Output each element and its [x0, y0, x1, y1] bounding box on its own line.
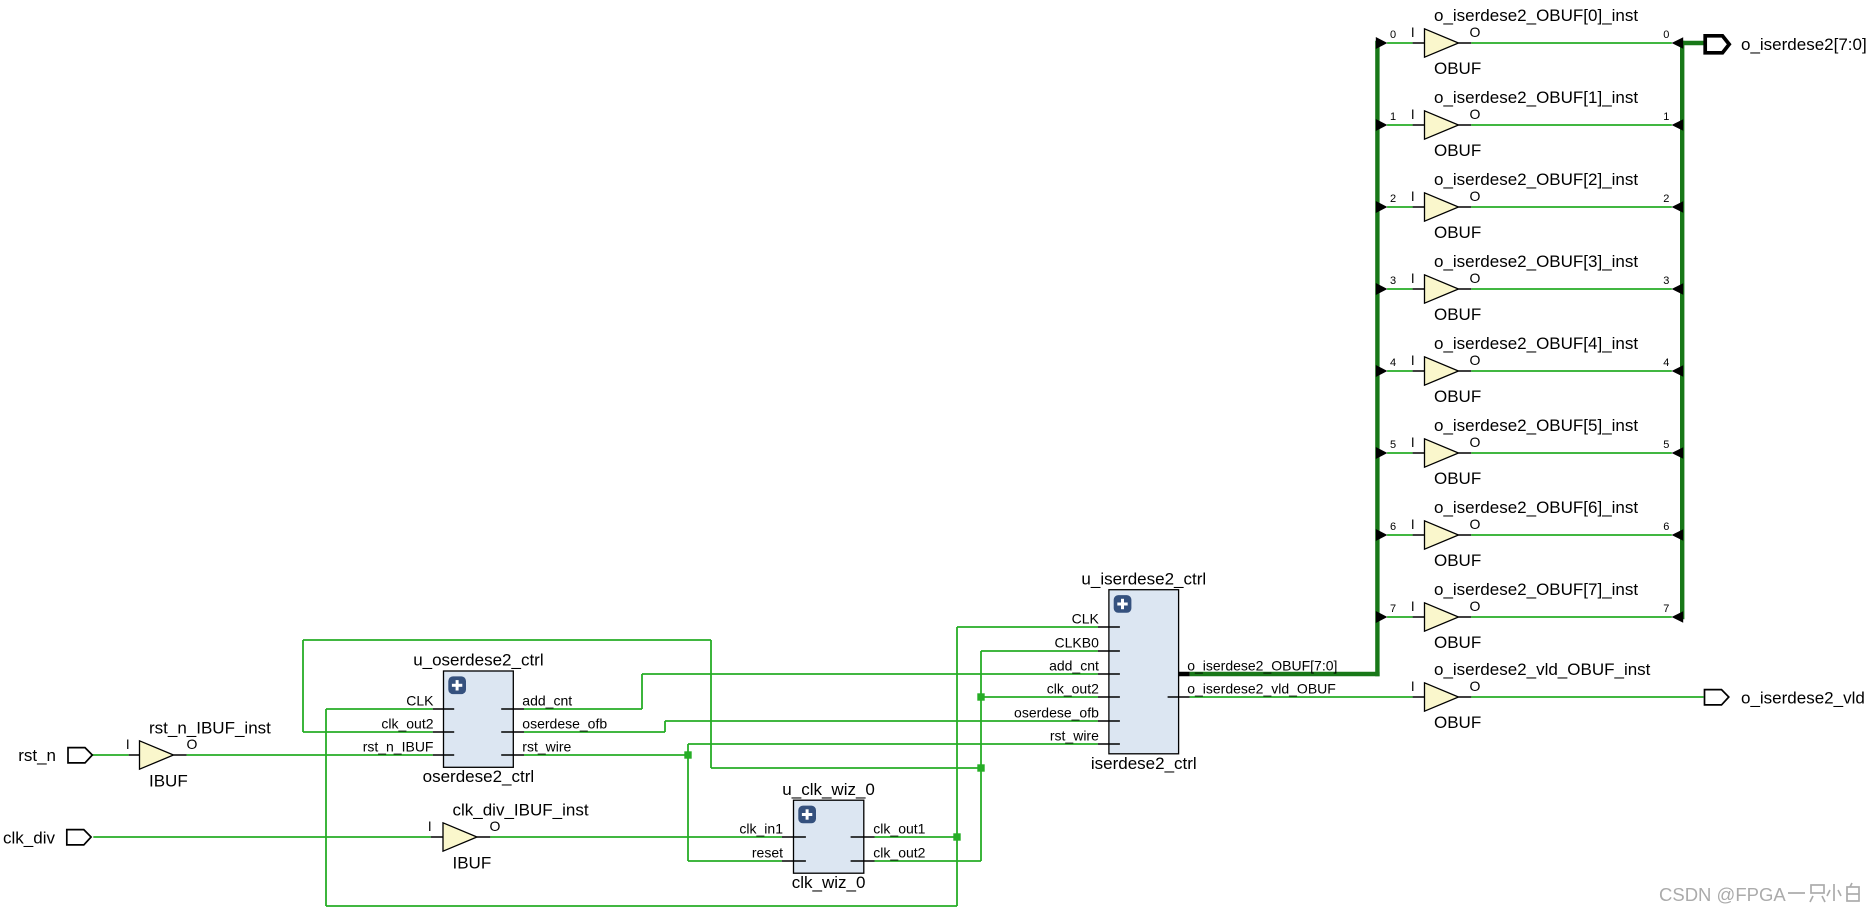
pin stubs of clk_div buffer: [431, 836, 491, 838]
type label IBUF of rst_n buffer: [149, 772, 188, 791]
wire bus tap 1 into OBUF[1] (left): [1387, 124, 1424, 126]
wire net o_iserdese2_vld_OBUF (iserdese2 to OBUF): [1190, 696, 1413, 698]
wire OBUF[0] output to right bus: [1459, 42, 1672, 44]
junction on rst_wire net: [684, 751, 691, 758]
svg-text:IBUF: IBUF: [149, 772, 188, 791]
junction on clk_out2 net at iserdese2 clk_out2 branch: [977, 693, 984, 700]
svg-text:add_cnt: add_cnt: [522, 692, 572, 708]
buffer o_iserdese2_OBUF[5]_inst: [1425, 439, 1459, 467]
arrowhead bus entry index 2: [1672, 201, 1684, 213]
wire net rst_n (input port to IBUF): [93, 754, 129, 756]
pin label O of rst_n buffer: [187, 736, 198, 752]
bus index label 4 (left): [1390, 357, 1396, 369]
svg-text:7: 7: [1663, 603, 1669, 615]
wire OBUF[4] output to right bus: [1459, 370, 1672, 372]
svg-text:reset: reset: [752, 844, 783, 860]
svg-text:6: 6: [1390, 521, 1396, 533]
wire OBUF[7] output to right bus: [1459, 616, 1672, 618]
bus index label 3 (right): [1663, 275, 1669, 287]
svg-text:I: I: [1411, 599, 1415, 614]
arrowhead bus exit index 1: [1376, 119, 1388, 131]
arrowhead bus exit index 5: [1376, 447, 1388, 459]
svg-text:I: I: [1411, 435, 1415, 450]
pin o_iserdese2_OBUF[7:0] label of u_iserdese2_ctrl (right, bus): [1187, 657, 1337, 673]
svg-text:O: O: [1470, 270, 1481, 286]
pin add_cnt of u_iserdese2_ctrl (left): [1049, 657, 1120, 674]
pin label I of o_iserdese2_vld_OBUF_inst: [1411, 679, 1415, 694]
svg-text:o_iserdese2_OBUF[6]_inst: o_iserdese2_OBUF[6]_inst: [1434, 498, 1638, 517]
instance name u_oserdese2_ctrl: [413, 651, 543, 670]
wire OBUF[6] output to right bus: [1459, 534, 1672, 536]
instance name o_iserdese2_OBUF[1]_inst: [1434, 88, 1638, 107]
pin label I of OBUF[7]: [1411, 599, 1415, 614]
wire OBUF[5] output to right bus: [1459, 452, 1672, 454]
svg-text:O: O: [1470, 352, 1481, 368]
wire bus tap 3 into OBUF[3] (left): [1387, 288, 1424, 290]
svg-text:OBUF: OBUF: [1434, 551, 1481, 570]
arrowhead bus entry index 5: [1672, 447, 1684, 459]
svg-text:o_iserdese2_OBUF[3]_inst: o_iserdese2_OBUF[3]_inst: [1434, 252, 1638, 271]
wire OBUF[1] output to right bus: [1459, 124, 1672, 126]
svg-text:2: 2: [1663, 193, 1669, 205]
svg-text:OBUF: OBUF: [1434, 141, 1481, 160]
svg-text:5: 5: [1390, 439, 1396, 451]
svg-text:u_clk_wiz_0: u_clk_wiz_0: [782, 780, 875, 799]
svg-text:iserdese2_ctrl: iserdese2_ctrl: [1091, 754, 1197, 773]
wire net rst_wire (oserdese2 rst_wire to iserdese2 rst_wire and clk_wiz reset): [524, 744, 1098, 861]
arrowhead bus entry index 7: [1672, 611, 1684, 623]
arrowhead bus exit index 4: [1376, 365, 1388, 377]
svg-text:1: 1: [1663, 111, 1669, 123]
wire net clk_div (input port to IBUF): [93, 836, 431, 838]
pin reset of u_clk_wiz_0 (left): [752, 844, 806, 861]
svg-text:clk_out1: clk_out1: [873, 820, 925, 836]
bus index label 7 (left): [1390, 603, 1396, 615]
svg-text:o_iserdese2[7:0]: o_iserdese2[7:0]: [1741, 35, 1867, 54]
wire net add_cnt (oserdese2 add_cnt to iserdese2 add_cnt): [524, 674, 1098, 709]
pin label O of vld buffer: [1470, 678, 1481, 694]
svg-text:7: 7: [1390, 603, 1396, 615]
pin clk_out1 of u_clk_wiz_0 (right): [851, 820, 926, 837]
pin label I of OBUF[4]: [1411, 353, 1415, 368]
bus index label 5 (right): [1663, 439, 1669, 451]
svg-text:I: I: [1411, 271, 1415, 286]
svg-text:clk_wiz_0: clk_wiz_0: [792, 873, 866, 892]
svg-text:I: I: [1411, 679, 1415, 694]
svg-text:clk_out2: clk_out2: [381, 715, 433, 731]
pin CLKB0 of u_iserdese2_ctrl (left): [1055, 634, 1120, 651]
pin label O of OBUF[6]: [1470, 516, 1481, 532]
wire bus tap 6 into OBUF[6] (left): [1387, 534, 1424, 536]
svg-text:2: 2: [1390, 193, 1396, 205]
arrowhead bus entry index 0: [1672, 37, 1684, 49]
wire OBUF[3] output to right bus: [1459, 288, 1672, 290]
wire net clk_out2 (clk_wiz_0 clk_out2 to oserdese2 clk_out2, iserdese2 CLKB0 and clk_out2): [303, 640, 1098, 861]
junction on clk_out2 net at left branch: [977, 764, 984, 771]
svg-text:CLKB0: CLKB0: [1055, 634, 1100, 650]
svg-text:o_iserdese2_vld_OBUF: o_iserdese2_vld_OBUF: [1187, 681, 1336, 697]
module u_oserdese2_ctrl (block): [444, 671, 514, 767]
arrowhead bus entry index 1: [1672, 119, 1684, 131]
svg-text:O: O: [1470, 106, 1481, 122]
module u_iserdese2_ctrl (block): [1109, 590, 1179, 754]
wire net oserdese_ofb (oserdese2 oserdese_ofb to iserdese2 oserdese_ofb): [524, 721, 1098, 732]
pin label I of OBUF[0]: [1411, 25, 1415, 40]
svg-text:o_iserdese2_OBUF[2]_inst: o_iserdese2_OBUF[2]_inst: [1434, 170, 1638, 189]
svg-text:clk_in1: clk_in1: [739, 820, 783, 836]
type label OBUF of instance 4: [1434, 387, 1481, 406]
bus index label 4 (right): [1663, 357, 1669, 369]
instance name o_iserdese2_OBUF[5]_inst: [1434, 416, 1638, 435]
instance name o_iserdese2_OBUF[2]_inst: [1434, 170, 1638, 189]
svg-text:CLK: CLK: [1072, 610, 1100, 626]
svg-text:clk_out2: clk_out2: [1047, 680, 1099, 696]
arrowhead bus entry index 4: [1672, 365, 1684, 377]
svg-text:oserdese2_ctrl: oserdese2_ctrl: [423, 767, 535, 786]
expand icon of u_iserdese2_ctrl: [1114, 595, 1132, 613]
input port clk_div: [3, 828, 91, 847]
arrowhead bus exit index 2: [1376, 201, 1388, 213]
instance name o_iserdese2_OBUF[6]_inst: [1434, 498, 1638, 517]
svg-text:O: O: [1470, 434, 1481, 450]
svg-text:4: 4: [1663, 357, 1669, 369]
bus index label 3 (left): [1390, 275, 1396, 287]
buffer o_iserdese2_OBUF[6]_inst: [1425, 521, 1459, 549]
svg-text:O: O: [490, 818, 501, 834]
type label OBUF of vld buffer: [1434, 713, 1481, 732]
arrowhead bus entry index 3: [1672, 283, 1684, 295]
type label OBUF of instance 7: [1434, 633, 1481, 652]
svg-text:4: 4: [1390, 357, 1396, 369]
bus net o_iserdese2_OBUF[7:0] (iserdese2 bus output, left vertical bus): [1190, 41, 1380, 676]
bus index label 5 (left): [1390, 439, 1396, 451]
buffer o_iserdese2_OBUF[2]_inst: [1425, 193, 1459, 221]
watermark Chinese characters yi zhi xiao bai (drawn strokes): [1788, 883, 1859, 902]
type label oserdese2_ctrl: [423, 767, 535, 786]
pin label I of OBUF[1]: [1411, 107, 1415, 122]
svg-text:rst_wire: rst_wire: [522, 738, 571, 754]
svg-text:0: 0: [1390, 29, 1396, 41]
svg-text:rst_wire: rst_wire: [1050, 727, 1099, 743]
svg-text:OBUF: OBUF: [1434, 59, 1481, 78]
svg-text:OBUF: OBUF: [1434, 305, 1481, 324]
type label OBUF of instance 3: [1434, 305, 1481, 324]
bus index label 0 (left): [1390, 29, 1396, 41]
wire net clk_div_IBUF (IBUF output to clk_wiz clk_in1): [490, 836, 782, 838]
pin stubs of vld buffer: [1413, 696, 1472, 698]
pin label O of OBUF[5]: [1470, 434, 1481, 450]
svg-text:u_iserdese2_ctrl: u_iserdese2_ctrl: [1081, 569, 1206, 588]
pin rst_wire of u_iserdese2_ctrl (left): [1050, 727, 1120, 744]
pin label O of clk_div buffer: [490, 818, 501, 834]
junction on clk_out1 net: [953, 833, 960, 840]
pin add_cnt of u_oserdese2_ctrl (right): [501, 692, 572, 709]
svg-text:clk_div: clk_div: [3, 828, 55, 847]
buffer o_iserdese2_OBUF[3]_inst: [1425, 275, 1459, 303]
wire bus tap 7 into OBUF[7] (left): [1387, 616, 1424, 618]
svg-text:1: 1: [1390, 111, 1396, 123]
svg-text:I: I: [126, 737, 130, 752]
svg-text:6: 6: [1663, 521, 1669, 533]
type label OBUF of instance 2: [1434, 223, 1481, 242]
svg-text:O: O: [1470, 24, 1481, 40]
bus index label 7 (right): [1663, 603, 1669, 615]
pin label I of OBUF[5]: [1411, 435, 1415, 450]
svg-text:O: O: [187, 736, 198, 752]
buffer clk_div_IBUF_inst: [443, 823, 477, 851]
svg-text:O: O: [1470, 516, 1481, 532]
pin label I of rst_n_IBUF_inst: [126, 737, 130, 752]
watermark CSDN @FPGA (gray): [1659, 884, 1786, 905]
svg-text:O: O: [1470, 598, 1481, 614]
type label IBUF of clk_div buffer: [453, 854, 492, 873]
svg-text:OBUF: OBUF: [1434, 469, 1481, 488]
type label OBUF of instance 1: [1434, 141, 1481, 160]
svg-text:I: I: [1411, 107, 1415, 122]
arrowhead bus entry index 6: [1672, 529, 1684, 541]
arrowhead bus exit index 3: [1376, 283, 1388, 295]
svg-text:oserdese_ofb: oserdese_ofb: [522, 715, 607, 731]
svg-text:OBUF: OBUF: [1434, 387, 1481, 406]
svg-text:o_iserdese2_OBUF[0]_inst: o_iserdese2_OBUF[0]_inst: [1434, 6, 1638, 25]
pin clk_out2 of u_iserdese2_ctrl (left): [1047, 680, 1120, 697]
instance name clk_div_IBUF_inst: [453, 800, 589, 819]
instance name o_iserdese2_OBUF[7]_inst: [1434, 580, 1638, 599]
pin o_iserdese2_vld_OBUF of u_iserdese2_ctrl (right): [1168, 681, 1336, 697]
instance name u_clk_wiz_0: [782, 780, 875, 799]
svg-text:rst_n: rst_n: [18, 746, 56, 765]
svg-text:o_iserdese2_OBUF[5]_inst: o_iserdese2_OBUF[5]_inst: [1434, 416, 1638, 435]
svg-text:5: 5: [1663, 439, 1669, 451]
svg-text:o_iserdese2_OBUF[4]_inst: o_iserdese2_OBUF[4]_inst: [1434, 334, 1638, 353]
buffer rst_n_IBUF_inst: [140, 741, 174, 769]
wire net clk_out1 / CLK (clk_wiz_0 clk_out1 to oserdese2 CLK and iserdese2 CLK): [326, 627, 1098, 906]
pin stubs of rst_n buffer: [129, 754, 187, 756]
svg-text:o_iserdese2_vld_OBUF_inst: o_iserdese2_vld_OBUF_inst: [1434, 660, 1651, 679]
pin label I of OBUF[2]: [1411, 189, 1415, 204]
arrowhead bus exit index 0: [1376, 37, 1388, 49]
arrowhead bus exit index 6: [1376, 529, 1388, 541]
pin label O of OBUF[4]: [1470, 352, 1481, 368]
svg-text:3: 3: [1663, 275, 1669, 287]
buffer o_iserdese2_OBUF[0]_inst: [1425, 29, 1459, 57]
bus index label 2 (right): [1663, 193, 1669, 205]
expand icon of u_oserdese2_ctrl: [448, 676, 466, 694]
module u_clk_wiz_0 (block): [794, 800, 864, 873]
svg-text:o_iserdese2_OBUF[7]_inst: o_iserdese2_OBUF[7]_inst: [1434, 580, 1638, 599]
svg-text:0: 0: [1663, 29, 1669, 41]
bus index label 6 (left): [1390, 521, 1396, 533]
pin label O of OBUF[0]: [1470, 24, 1481, 40]
pin label O of OBUF[3]: [1470, 270, 1481, 286]
wire OBUF[2] output to right bus: [1459, 206, 1672, 208]
type label clk_wiz_0: [792, 873, 866, 892]
pin label O of OBUF[1]: [1470, 106, 1481, 122]
bus index label 1 (right): [1663, 111, 1669, 123]
bus pin stub on iserdese2 (black): [1167, 672, 1189, 676]
pin label O of OBUF[7]: [1470, 598, 1481, 614]
expand icon of u_clk_wiz_0: [798, 806, 816, 824]
wire net o_iserdese2_vld (OBUF output to output port): [1471, 696, 1703, 698]
wire bus tap 4 into OBUF[4] (left): [1387, 370, 1424, 372]
svg-text:3: 3: [1390, 275, 1396, 287]
type label OBUF of instance 0: [1434, 59, 1481, 78]
svg-text:I: I: [1411, 353, 1415, 368]
svg-text:add_cnt: add_cnt: [1049, 657, 1099, 673]
svg-text:clk_out2: clk_out2: [873, 844, 925, 860]
svg-text:rst_n_IBUF: rst_n_IBUF: [363, 738, 434, 754]
svg-text:u_oserdese2_ctrl: u_oserdese2_ctrl: [413, 651, 543, 670]
buffer o_iserdese2_OBUF[1]_inst: [1425, 111, 1459, 139]
pin oserdese_ofb of u_oserdese2_ctrl (right): [501, 715, 607, 732]
svg-text:OBUF: OBUF: [1434, 713, 1481, 732]
svg-text:o_iserdese2_OBUF[7:0]: o_iserdese2_OBUF[7:0]: [1187, 657, 1337, 673]
pin clk_out2 of u_oserdese2_ctrl (left): [381, 715, 454, 732]
svg-text:oserdese_ofb: oserdese_ofb: [1014, 704, 1099, 720]
buffer o_iserdese2_OBUF[7]_inst: [1425, 603, 1459, 631]
instance name o_iserdese2_OBUF[4]_inst: [1434, 334, 1638, 353]
svg-text:OBUF: OBUF: [1434, 223, 1481, 242]
instance name o_iserdese2_OBUF[3]_inst: [1434, 252, 1638, 271]
pin rst_wire of u_oserdese2_ctrl (right): [501, 738, 571, 755]
buffer o_iserdese2_OBUF[4]_inst: [1425, 357, 1459, 385]
pin CLK of u_oserdese2_ctrl (left): [406, 692, 454, 709]
bus index label 6 (right): [1663, 521, 1669, 533]
pin label I of clk_div_IBUF_inst: [428, 819, 432, 834]
wire net rst_n_IBUF (IBUF output to oserdese2_ctrl): [187, 754, 433, 756]
bus index label 0 (right): [1663, 29, 1669, 41]
svg-text:CSDN @FPGA: CSDN @FPGA: [1659, 884, 1786, 905]
instance name o_iserdese2_vld_OBUF_inst: [1434, 660, 1651, 679]
svg-text:IBUF: IBUF: [453, 854, 492, 873]
bus net o_iserdese2[7:0] (right vertical bus to output port): [1680, 41, 1704, 619]
pin clk_out2 of u_clk_wiz_0 (right): [851, 844, 926, 861]
buffer o_iserdese2_vld_OBUF_inst: [1425, 683, 1459, 711]
svg-text:O: O: [1470, 678, 1481, 694]
instance name o_iserdese2_OBUF[0]_inst: [1434, 6, 1638, 25]
pin clk_in1 of u_clk_wiz_0 (left): [739, 820, 805, 837]
svg-text:clk_div_IBUF_inst: clk_div_IBUF_inst: [453, 800, 589, 819]
pin rst_n_IBUF of u_oserdese2_ctrl (left): [363, 738, 455, 755]
type label OBUF of instance 6: [1434, 551, 1481, 570]
type label OBUF of instance 5: [1434, 469, 1481, 488]
svg-text:OBUF: OBUF: [1434, 633, 1481, 652]
svg-text:O: O: [1470, 188, 1481, 204]
pin label I of OBUF[6]: [1411, 517, 1415, 532]
svg-text:I: I: [428, 819, 432, 834]
svg-text:o_iserdese2_OBUF[1]_inst: o_iserdese2_OBUF[1]_inst: [1434, 88, 1638, 107]
svg-text:I: I: [1411, 189, 1415, 204]
pin CLK of u_iserdese2_ctrl (left): [1072, 610, 1120, 627]
output port o_iserdese2[7:0] (bus, thick): [1705, 35, 1867, 54]
svg-text:CLK: CLK: [406, 692, 434, 708]
svg-text:I: I: [1411, 517, 1415, 532]
svg-text:I: I: [1411, 25, 1415, 40]
input port rst_n: [18, 746, 92, 765]
svg-text:rst_n_IBUF_inst: rst_n_IBUF_inst: [149, 719, 271, 738]
bus index label 1 (left): [1390, 111, 1396, 123]
wire bus tap 5 into OBUF[5] (left): [1387, 452, 1424, 454]
pin label O of OBUF[2]: [1470, 188, 1481, 204]
output port o_iserdese2_vld: [1705, 688, 1865, 707]
pin label I of OBUF[3]: [1411, 271, 1415, 286]
type label iserdese2_ctrl: [1091, 754, 1197, 773]
instance name rst_n_IBUF_inst: [149, 719, 271, 738]
arrowhead bus exit index 7: [1376, 611, 1388, 623]
wire bus tap 2 into OBUF[2] (left): [1387, 206, 1424, 208]
svg-text:o_iserdese2_vld: o_iserdese2_vld: [1741, 688, 1865, 707]
wire bus tap 0 into OBUF[0] (left): [1387, 42, 1424, 44]
bus index label 2 (left): [1390, 193, 1396, 205]
instance name u_iserdese2_ctrl: [1081, 569, 1206, 588]
pin oserdese_ofb of u_iserdese2_ctrl (left): [1014, 704, 1120, 721]
